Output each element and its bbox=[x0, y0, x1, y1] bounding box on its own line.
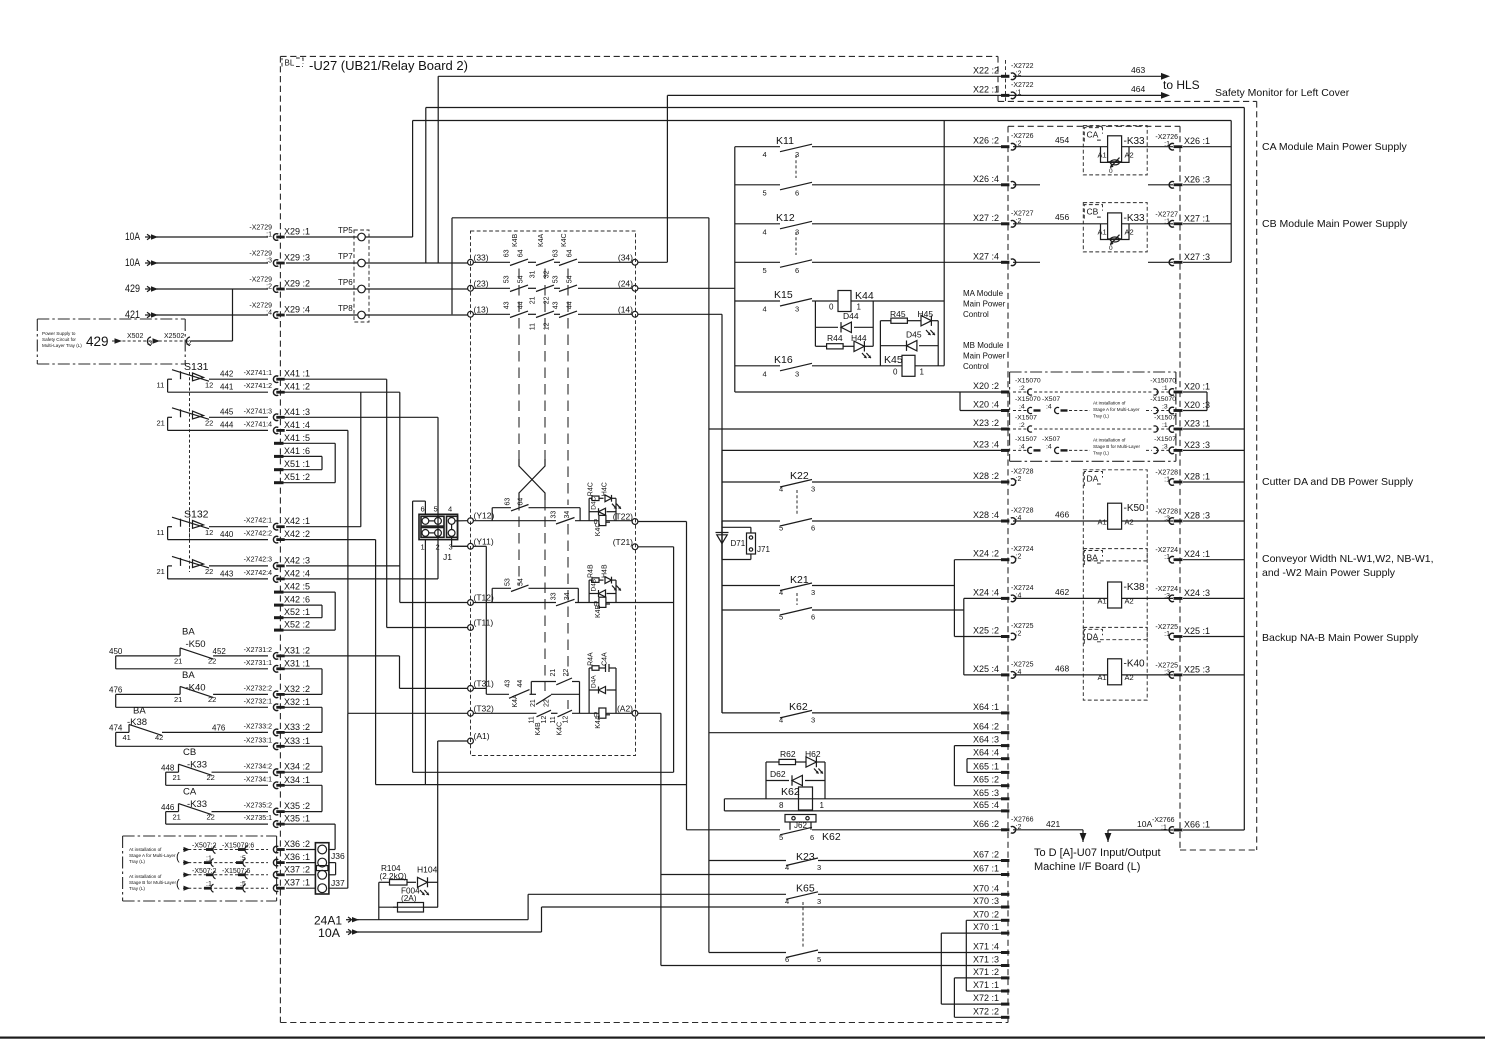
wire (A1) to R104/F004 riser bbox=[437, 741, 439, 907]
relay coil K44 bbox=[838, 291, 851, 312]
svg-text:-X2725: -X2725 bbox=[1011, 623, 1034, 630]
DA module K40 bbox=[1083, 627, 1147, 700]
pin X20:1 bbox=[1169, 389, 1174, 396]
pin X42:2 bbox=[273, 536, 278, 543]
svg-text:X31 :2: X31 :2 bbox=[284, 645, 310, 655]
svg-text:-X2734:2: -X2734:2 bbox=[244, 763, 273, 770]
svg-text:S132: S132 bbox=[184, 509, 209, 521]
svg-text:12: 12 bbox=[563, 716, 570, 724]
svg-text:A1: A1 bbox=[1098, 518, 1107, 527]
pin X42:1 bbox=[273, 523, 278, 530]
svg-text:X72 :2: X72 :2 bbox=[973, 1006, 999, 1016]
pin X32:2 bbox=[273, 691, 278, 698]
svg-text::1: :1 bbox=[1164, 631, 1170, 638]
relay coil K44 with D44/R44/H44 bbox=[815, 300, 838, 302]
svg-text:11: 11 bbox=[157, 381, 165, 390]
pin X25:4 bbox=[1001, 673, 1009, 676]
matrix row contacts at y=262.3 bbox=[473, 261, 510, 263]
svg-text:5: 5 bbox=[434, 505, 438, 514]
relay coil K38 bbox=[1108, 582, 1122, 608]
svg-text:Cutter DA and DB Power Supply: Cutter DA and DB Power Supply bbox=[1262, 476, 1414, 488]
jumper connector block J36/J37 bbox=[315, 843, 329, 894]
svg-text:X71 :3: X71 :3 bbox=[973, 955, 999, 965]
svg-text:3: 3 bbox=[811, 715, 815, 724]
svg-text:X67 :2: X67 :2 bbox=[973, 850, 999, 860]
pin X65:4 bbox=[1001, 809, 1009, 812]
svg-text:Stage A for Multi-Layer: Stage A for Multi-Layer bbox=[129, 853, 176, 858]
svg-text:22: 22 bbox=[205, 567, 213, 576]
matrix node (T11) bbox=[468, 625, 474, 631]
svg-text:X33 :1: X33 :1 bbox=[284, 736, 310, 746]
svg-text:X71 :4: X71 :4 bbox=[973, 942, 999, 952]
svg-text:X70 :4: X70 :4 bbox=[973, 883, 999, 893]
matrix node (A1) bbox=[468, 738, 474, 744]
pin X35:2 bbox=[273, 808, 278, 815]
svg-text:21: 21 bbox=[550, 669, 557, 677]
wires S131 rows X41 bbox=[168, 378, 172, 380]
svg-text:Power Supply to: Power Supply to bbox=[42, 331, 76, 336]
pins X42:5 X42:6 X52:1 X52:2 with jumper brackets bbox=[274, 591, 284, 594]
svg-text:-K50: -K50 bbox=[186, 639, 206, 650]
svg-text:X27 :2: X27 :2 bbox=[973, 213, 999, 223]
svg-text:452: 452 bbox=[213, 647, 227, 656]
svg-text:K45: K45 bbox=[884, 354, 903, 366]
svg-text::4: :4 bbox=[1046, 404, 1052, 411]
matrix node (T21) bbox=[632, 544, 638, 550]
svg-text:X32 :2: X32 :2 bbox=[284, 684, 310, 694]
svg-text:(33): (33) bbox=[474, 252, 489, 262]
svg-text:4: 4 bbox=[785, 863, 789, 872]
pin X27:4 bbox=[1001, 261, 1009, 264]
wire X41:2 row bbox=[283, 391, 400, 393]
wires R104 block verticals bbox=[378, 882, 380, 919]
svg-text:X24 :4: X24 :4 bbox=[973, 587, 999, 597]
wire X41:3 / J1 pin5-pin2 / X42:4 riser bbox=[437, 417, 439, 579]
svg-text:454: 454 bbox=[1055, 135, 1069, 145]
pin X27:1 bbox=[1169, 220, 1174, 227]
S131 contact pole 2 (21-22) bbox=[180, 409, 182, 417]
svg-text:-X2722: -X2722 bbox=[1011, 82, 1034, 89]
matrix mechanical linkage long-dashed lines bbox=[518, 269, 520, 460]
svg-text:-X2727: -X2727 bbox=[1155, 211, 1178, 218]
LED H44 bbox=[854, 341, 864, 351]
svg-text:X27 :3: X27 :3 bbox=[1184, 252, 1210, 262]
svg-text:21: 21 bbox=[173, 773, 181, 782]
svg-text:Stage B for Multi-Layer: Stage B for Multi-Layer bbox=[129, 880, 176, 885]
svg-text:21: 21 bbox=[530, 699, 537, 707]
svg-text:(Y12): (Y12) bbox=[474, 511, 495, 521]
J1 pin1 drop to (T22) net bbox=[424, 540, 426, 785]
pin X25:2 bbox=[1001, 635, 1009, 638]
svg-text:K16: K16 bbox=[774, 354, 793, 366]
svg-text:(T32): (T32) bbox=[474, 703, 494, 713]
svg-text:3: 3 bbox=[811, 588, 815, 597]
svg-text:K11: K11 bbox=[776, 135, 794, 147]
svg-text::2: :2 bbox=[1016, 554, 1022, 561]
svg-text:-X2725: -X2725 bbox=[1011, 661, 1034, 668]
pin X23:3 bbox=[1169, 447, 1174, 454]
dashed rows X36/X37 with X507/X1507 connector symbols bbox=[183, 849, 268, 851]
svg-text::3: :3 bbox=[266, 258, 272, 265]
svg-text::1: :1 bbox=[266, 232, 272, 239]
svg-text:X25 :1: X25 :1 bbox=[1184, 626, 1210, 636]
svg-text:X28 :1: X28 :1 bbox=[1184, 472, 1210, 482]
svg-text:X71 :1: X71 :1 bbox=[973, 980, 999, 990]
svg-text:X20 :2: X20 :2 bbox=[973, 381, 999, 391]
svg-text:-X507: -X507 bbox=[1042, 436, 1060, 443]
K11 contact 5-6 bbox=[735, 184, 780, 186]
svg-text:450: 450 bbox=[109, 647, 123, 656]
wire TP5 to top rail y=120.5 bbox=[365, 236, 412, 238]
bus B from (14) bbox=[638, 313, 722, 315]
svg-text:X36 :2: X36 :2 bbox=[284, 839, 310, 849]
svg-text:(2A): (2A) bbox=[401, 894, 417, 903]
svg-text::4: :4 bbox=[1019, 443, 1025, 450]
svg-text:X24 :3: X24 :3 bbox=[1184, 588, 1210, 598]
relay coil K40 bbox=[1108, 659, 1122, 685]
pin X28:3 bbox=[1169, 518, 1174, 525]
svg-text:448: 448 bbox=[161, 764, 175, 773]
pin X28:4 bbox=[1001, 520, 1009, 523]
pin X23:4 bbox=[1001, 449, 1009, 452]
matrix row (T12) with bypass contact 53/54 and contact 33/34 bbox=[473, 602, 556, 604]
svg-text::1: :1 bbox=[1162, 422, 1168, 429]
svg-text:TP6: TP6 bbox=[338, 278, 353, 287]
svg-text:X70 :3: X70 :3 bbox=[973, 896, 999, 906]
X66:2 row with J62 and K62 contact 5-6 bbox=[687, 829, 781, 831]
svg-text:CB: CB bbox=[183, 747, 196, 758]
svg-text:X65 :4: X65 :4 bbox=[973, 800, 999, 810]
svg-text:6: 6 bbox=[810, 833, 814, 842]
DA module K50 bbox=[1083, 470, 1147, 561]
svg-text:X29 :4: X29 :4 bbox=[284, 305, 310, 315]
svg-text:53: 53 bbox=[505, 578, 512, 586]
wire dashed 429 link with X502 / X2502 pins bbox=[112, 340, 228, 342]
svg-text:BA: BA bbox=[133, 706, 146, 717]
svg-text:H4B: H4B bbox=[602, 564, 609, 578]
svg-text:(: ( bbox=[176, 851, 180, 863]
svg-text:K62: K62 bbox=[781, 786, 800, 798]
svg-text:K4B: K4B bbox=[512, 233, 519, 247]
svg-text:Backup NA-B Main Power Supply: Backup NA-B Main Power Supply bbox=[1262, 632, 1419, 644]
svg-text:4: 4 bbox=[785, 897, 789, 906]
K12 contact 5-6 bbox=[735, 261, 780, 263]
svg-text:-X2735:1: -X2735:1 bbox=[244, 815, 273, 822]
wire X42:2 long route to (T22) bbox=[283, 539, 376, 541]
svg-text:-X2727: -X2727 bbox=[1011, 210, 1034, 217]
svg-text:X23 :2: X23 :2 bbox=[973, 418, 999, 428]
svg-text:-X2732:2: -X2732:2 bbox=[244, 686, 273, 693]
pin X42:3 bbox=[273, 563, 278, 570]
svg-text:6: 6 bbox=[795, 266, 799, 275]
svg-text:22: 22 bbox=[208, 657, 216, 666]
wire X41:2 to X42:1 bracket bbox=[360, 392, 362, 527]
svg-text:464: 464 bbox=[1131, 84, 1145, 94]
J1 pin6 riser to (T21) route bbox=[424, 501, 426, 514]
svg-text:-X2742:4: -X2742:4 bbox=[244, 570, 273, 577]
svg-text:X32 :1: X32 :1 bbox=[284, 697, 310, 707]
svg-text::1: :1 bbox=[1162, 385, 1168, 392]
svg-text:H62: H62 bbox=[805, 749, 821, 759]
svg-text::1: :1 bbox=[1164, 141, 1170, 148]
svg-text:0: 0 bbox=[1109, 245, 1113, 252]
X26:3/X27:3 left and right stubs bbox=[1013, 184, 1040, 186]
svg-text:-X2724: -X2724 bbox=[1155, 586, 1178, 593]
wire junction riser x=425.8 to y=107.5 rail bbox=[425, 108, 427, 264]
svg-text:6: 6 bbox=[421, 505, 425, 514]
svg-text:X66 :2: X66 :2 bbox=[973, 819, 999, 829]
wire 10A to X70:3 row bbox=[541, 907, 543, 932]
svg-text:H104: H104 bbox=[417, 865, 438, 875]
K50 contact 21-22 bbox=[179, 648, 181, 656]
svg-text:441: 441 bbox=[220, 383, 234, 392]
svg-text:21: 21 bbox=[157, 567, 165, 576]
svg-text:C4A: C4A bbox=[602, 652, 609, 666]
svg-text:-X507: -X507 bbox=[1042, 396, 1060, 403]
relay contact rail bbox=[734, 147, 736, 392]
svg-text:X28 :2: X28 :2 bbox=[973, 471, 999, 481]
bypass bar 681.5 with contact 21/22 upper bbox=[530, 682, 532, 695]
pin X27:3 bbox=[1169, 259, 1174, 266]
svg-text:0: 0 bbox=[1109, 168, 1113, 175]
svg-text:TP8: TP8 bbox=[338, 304, 353, 313]
pin X71:2 bbox=[1001, 976, 1009, 979]
pin X24:3 bbox=[1169, 595, 1174, 602]
pin X66:2 bbox=[1001, 828, 1009, 831]
svg-text::1: :1 bbox=[1164, 554, 1170, 561]
pin X3x row 3 bbox=[273, 885, 278, 892]
svg-text:-X15070: -X15070 bbox=[1015, 378, 1041, 385]
pin X27:2 bbox=[1001, 222, 1009, 225]
svg-text:(T11): (T11) bbox=[474, 618, 494, 628]
svg-text:-U27 (UB21/Relay Board 2): -U27 (UB21/Relay Board 2) bbox=[309, 58, 468, 73]
board U27 dashed border bbox=[279, 56, 281, 1022]
X64:2 row bbox=[709, 732, 1001, 734]
pin X20:2 bbox=[1001, 391, 1009, 394]
svg-text:Multi-Layer Tray (L): Multi-Layer Tray (L) bbox=[42, 343, 82, 348]
svg-text:K4A: K4A bbox=[595, 715, 602, 729]
pin X71:4 bbox=[1001, 951, 1009, 954]
svg-text:and -W2 Main Power Supply: and -W2 Main Power Supply bbox=[1262, 567, 1396, 579]
svg-text:4: 4 bbox=[763, 369, 767, 378]
K11 linkage bbox=[795, 155, 797, 178]
matrix row contacts at y=288.3 bbox=[473, 287, 510, 289]
svg-text:440: 440 bbox=[220, 530, 234, 539]
wire K16 second pole row X20:2 bbox=[735, 391, 1001, 393]
svg-text:X65 :3: X65 :3 bbox=[973, 788, 999, 798]
svg-text:-K33: -K33 bbox=[187, 760, 207, 771]
svg-text:CA: CA bbox=[1087, 130, 1099, 140]
svg-text:K12: K12 bbox=[776, 212, 795, 224]
matrix row (T32) contacts 11/12 K4B, 11/12 K4C bbox=[473, 712, 536, 714]
K65 contact 6-5 bbox=[709, 952, 786, 954]
svg-text:-X1507: -X1507 bbox=[1015, 436, 1037, 443]
pin X70:1 bbox=[1001, 932, 1009, 935]
svg-text:X64 :2: X64 :2 bbox=[973, 722, 999, 732]
svg-text:X36 :1: X36 :1 bbox=[284, 852, 310, 862]
svg-text:X64 :4: X64 :4 bbox=[973, 748, 999, 758]
svg-text:3: 3 bbox=[817, 863, 821, 872]
svg-text:D4C: D4C bbox=[591, 496, 598, 509]
pin X66:1 bbox=[1169, 827, 1174, 834]
svg-text:X24 :1: X24 :1 bbox=[1184, 549, 1210, 559]
svg-text:463: 463 bbox=[1131, 65, 1145, 75]
pin X3x row 0 bbox=[273, 846, 278, 853]
svg-text:K15: K15 bbox=[774, 289, 793, 301]
svg-text:456: 456 bbox=[1055, 212, 1069, 222]
svg-text:X27 :4: X27 :4 bbox=[973, 251, 999, 261]
svg-text:-X2742:1: -X2742:1 bbox=[244, 518, 273, 525]
pin X31:1 bbox=[273, 666, 278, 673]
S131 linkage dashed bbox=[189, 372, 191, 540]
svg-text:4: 4 bbox=[779, 715, 783, 724]
svg-text:X29 :2: X29 :2 bbox=[284, 279, 310, 289]
svg-text:-X2735:2: -X2735:2 bbox=[244, 803, 273, 810]
svg-text:-X2733:2: -X2733:2 bbox=[244, 724, 273, 731]
svg-text:X41 :4: X41 :4 bbox=[284, 420, 310, 430]
svg-text:R62: R62 bbox=[780, 749, 796, 759]
svg-text::2: :2 bbox=[266, 284, 272, 291]
matrix node (34) bbox=[632, 259, 638, 265]
svg-text:43: 43 bbox=[553, 301, 560, 309]
svg-text:34: 34 bbox=[564, 511, 571, 519]
svg-text:-X2725: -X2725 bbox=[1155, 662, 1178, 669]
svg-text:Safety Circuit for: Safety Circuit for bbox=[42, 337, 76, 342]
wire 429 riser from power supply box bbox=[232, 289, 234, 341]
svg-text:Main Power: Main Power bbox=[963, 352, 1006, 361]
svg-text:54: 54 bbox=[518, 578, 525, 586]
svg-text:Tray (L): Tray (L) bbox=[1093, 414, 1109, 419]
svg-text:to HLS: to HLS bbox=[1163, 78, 1200, 92]
wire D44 branch bbox=[854, 326, 873, 328]
svg-text:X52 :1: X52 :1 bbox=[284, 607, 310, 617]
svg-text:-X2731:2: -X2731:2 bbox=[244, 647, 273, 654]
svg-text:X37 :1: X37 :1 bbox=[284, 878, 310, 888]
test point circle TP7 bbox=[358, 259, 366, 267]
svg-text:(23): (23) bbox=[474, 278, 489, 288]
svg-text:(13): (13) bbox=[474, 304, 489, 314]
matrix node (23) bbox=[468, 285, 474, 291]
svg-text:(34): (34) bbox=[618, 252, 633, 262]
svg-text:K62: K62 bbox=[822, 831, 841, 843]
linkage crossover X bbox=[519, 459, 545, 500]
svg-text:Machine I/F Board (L): Machine I/F Board (L) bbox=[1034, 861, 1140, 873]
svg-text:-K50: -K50 bbox=[1124, 503, 1146, 514]
pin X26:2 bbox=[1001, 145, 1009, 148]
stage A/B installation dash-dot box bbox=[123, 836, 277, 901]
pin X20:3 bbox=[1169, 407, 1174, 414]
pin X70:2 bbox=[1001, 919, 1009, 922]
svg-text:CA: CA bbox=[183, 787, 197, 798]
svg-text:10A: 10A bbox=[125, 257, 141, 269]
svg-text:X25 :3: X25 :3 bbox=[1184, 664, 1210, 674]
svg-text:-X2741:1: -X2741:1 bbox=[244, 370, 273, 377]
K21 contact 4-3 bbox=[722, 585, 780, 587]
svg-text:-X2766: -X2766 bbox=[1011, 816, 1034, 823]
BA module K38 bbox=[1083, 549, 1147, 640]
svg-text:X72 :1: X72 :1 bbox=[973, 993, 999, 1003]
K22 linkage bbox=[796, 490, 798, 516]
svg-text:34: 34 bbox=[564, 592, 571, 600]
svg-text:CB: CB bbox=[1087, 207, 1099, 217]
svg-text::3: :3 bbox=[1162, 443, 1168, 450]
svg-text:X41 :2: X41 :2 bbox=[284, 382, 310, 392]
relay coil K50 bbox=[1108, 503, 1122, 529]
pin X67:2 bbox=[1001, 859, 1009, 862]
svg-text:63: 63 bbox=[505, 498, 512, 506]
svg-text:-X2733:1: -X2733:1 bbox=[244, 737, 273, 744]
svg-text:X42 :3: X42 :3 bbox=[284, 555, 310, 565]
pin X33:2 bbox=[273, 729, 278, 736]
svg-text:X42 :5: X42 :5 bbox=[284, 582, 310, 592]
wire X41:4 riser bbox=[286, 429, 348, 431]
svg-text::2: :2 bbox=[1019, 422, 1025, 429]
svg-text:4: 4 bbox=[779, 485, 783, 494]
svg-text:-K33: -K33 bbox=[187, 799, 207, 810]
svg-text:-X2728: -X2728 bbox=[1155, 470, 1178, 477]
bottom frame rule bbox=[0, 1037, 1485, 1039]
svg-text:K4C: K4C bbox=[595, 523, 602, 537]
svg-text:X23 :3: X23 :3 bbox=[1184, 440, 1210, 450]
svg-text:J36: J36 bbox=[331, 851, 345, 861]
svg-text:-X2728: -X2728 bbox=[1011, 508, 1034, 515]
svg-text::4: :4 bbox=[266, 310, 272, 317]
test point circle TP8 bbox=[358, 311, 366, 319]
svg-text:X26 :3: X26 :3 bbox=[1184, 174, 1210, 184]
svg-text:X24 :2: X24 :2 bbox=[973, 549, 999, 559]
X20 right bracket bbox=[1206, 392, 1208, 411]
pin X65:1 bbox=[1001, 771, 1009, 774]
svg-text:5: 5 bbox=[779, 833, 783, 842]
wire TP7 row to matrix node (33) bbox=[365, 262, 467, 264]
pin X65:3 bbox=[1001, 797, 1009, 800]
svg-text:CA Module Main Power Supply: CA Module Main Power Supply bbox=[1262, 141, 1407, 153]
svg-text:-K38: -K38 bbox=[1124, 582, 1146, 593]
pin X22:1 bbox=[1001, 94, 1009, 97]
wire (24) row to K rail bbox=[638, 287, 735, 289]
svg-text:D45: D45 bbox=[906, 330, 922, 340]
S132 linkage dashed bbox=[189, 519, 191, 572]
svg-text:X70 :1: X70 :1 bbox=[973, 922, 999, 932]
svg-text:3: 3 bbox=[811, 485, 815, 494]
svg-text:22: 22 bbox=[544, 699, 551, 707]
svg-text:R4B: R4B bbox=[588, 564, 595, 578]
svg-text:X42 :1: X42 :1 bbox=[284, 516, 310, 526]
wire TP8/421 row to matrix node (13) bbox=[365, 314, 467, 316]
pin X25:3 bbox=[1169, 672, 1174, 679]
svg-text:5: 5 bbox=[817, 955, 821, 964]
pin X71:3 bbox=[1001, 964, 1009, 967]
svg-text:X33 :2: X33 :2 bbox=[284, 722, 310, 732]
pin X32:1 bbox=[273, 704, 278, 711]
matrix node (33) bbox=[468, 259, 474, 265]
connector pin X29 :4 bbox=[273, 312, 278, 319]
svg-text:X25 :4: X25 :4 bbox=[973, 664, 999, 674]
svg-text:Stage B for Multi-Layer: Stage B for Multi-Layer bbox=[1093, 444, 1140, 449]
svg-text:(: ( bbox=[176, 878, 180, 890]
pin X41:2 bbox=[273, 389, 278, 396]
matrix node (T22) bbox=[632, 519, 638, 525]
install box row X23:2-X23:1 bbox=[1013, 428, 1029, 430]
wire (T12) to riser x=400 bbox=[400, 602, 468, 604]
wire D45 branch bbox=[919, 345, 938, 347]
svg-text:X70 :2: X70 :2 bbox=[973, 909, 999, 919]
matrix rows (Y11)/(T11)/(T12) left links bbox=[453, 545, 468, 547]
diode D45 bbox=[907, 341, 917, 351]
svg-text:Stage A for Multi-Layer: Stage A for Multi-Layer bbox=[1093, 407, 1140, 412]
svg-text:-X2729: -X2729 bbox=[249, 303, 272, 310]
svg-text:8: 8 bbox=[779, 801, 784, 810]
